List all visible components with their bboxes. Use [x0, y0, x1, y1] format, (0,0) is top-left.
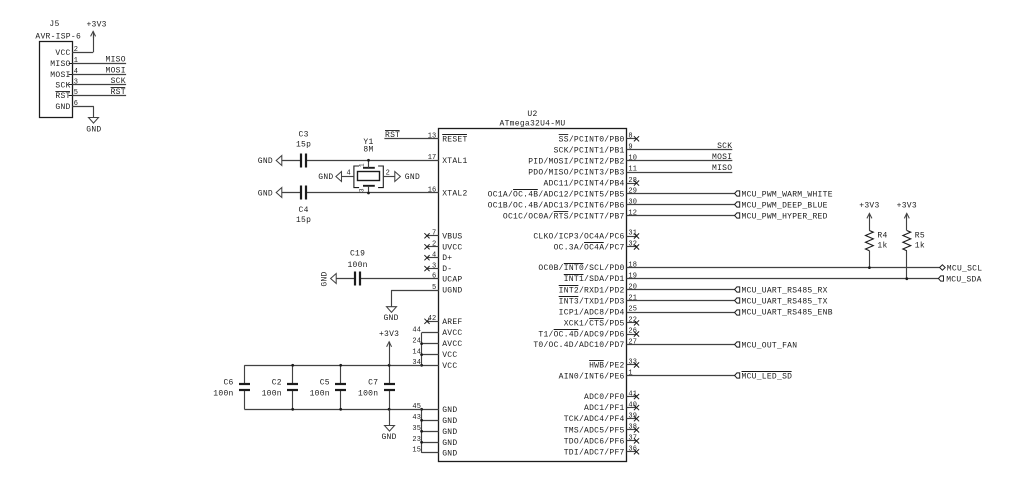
- svg-text:8M: 8M: [363, 146, 373, 155]
- svg-text:INT3/TXD1/PD3: INT3/TXD1/PD3: [559, 297, 625, 306]
- U2 pin number 3: [432, 262, 436, 270]
- J5 pin number 5: [74, 89, 78, 97]
- svg-text:GND: GND: [321, 271, 330, 286]
- svg-text:4: 4: [432, 251, 436, 259]
- svg-text:MCU_UART_RS485_ENB: MCU_UART_RS485_ENB: [742, 309, 833, 318]
- junction C7 bottom: [388, 408, 391, 411]
- U2 pin number 23: [412, 436, 421, 444]
- U2 pin number 36: [628, 446, 637, 454]
- svg-text:D+: D+: [442, 254, 452, 263]
- U2 pin number 41: [628, 390, 637, 398]
- wire J5 MOSI: [72, 74, 126, 76]
- wire MCU_PWM_HYPER_RED: [627, 215, 735, 217]
- no-connect pin 22: [627, 320, 640, 325]
- U2 pin name AVCC (44): [442, 329, 462, 338]
- svg-text:3: 3: [359, 188, 366, 192]
- svg-text:MCU_UART_RS485_RX: MCU_UART_RS485_RX: [742, 287, 828, 296]
- U2 pin name SS/PCINT0/PB0 (8): [559, 135, 625, 145]
- svg-text:MISO: MISO: [712, 164, 732, 173]
- svg-text:TCK/ADC4/PF4: TCK/ADC4/PF4: [564, 415, 625, 424]
- svg-text:XTAL2: XTAL2: [442, 190, 467, 199]
- svg-text:ADC11/PCINT4/PB4: ADC11/PCINT4/PB4: [543, 180, 624, 189]
- J5 pin tick MISO: [69, 63, 73, 65]
- U2 pin number 15: [412, 447, 421, 455]
- U2 pin name INT2/RXD1/PD2 (20): [559, 286, 625, 296]
- svg-text:AVCC: AVCC: [442, 329, 462, 338]
- svg-text:MCU_PWM_HYPER_RED: MCU_PWM_HYPER_RED: [742, 213, 828, 222]
- U2 pin name OC.3A/OC4A/PC7 (32): [554, 243, 625, 253]
- svg-text:30: 30: [628, 199, 637, 207]
- crystal Y1 labels: [363, 138, 373, 155]
- svg-text:MCU_OUT_FAN: MCU_OUT_FAN: [742, 341, 798, 350]
- svg-text:ATmega32U4-MU: ATmega32U4-MU: [500, 120, 566, 129]
- wire MCU_UART_RS485_RX: [627, 289, 735, 291]
- svg-text:AIN0/INT6/PE6: AIN0/INT6/PE6: [559, 372, 625, 381]
- svg-text:C2: C2: [272, 379, 282, 388]
- svg-text:4: 4: [346, 170, 350, 178]
- Y1 pin number 4: [346, 170, 350, 178]
- svg-text:MCU_SCL: MCU_SCL: [947, 264, 983, 273]
- U2 pin name TDO/ADC6/PF6 (37): [564, 437, 625, 446]
- C19 labels: [347, 250, 367, 270]
- U2 pin number 43: [412, 414, 421, 422]
- U2 pin number 30: [628, 199, 637, 207]
- U2 pin number 37: [628, 435, 637, 443]
- junction C7 top: [388, 364, 391, 367]
- svg-text:100n: 100n: [310, 390, 330, 399]
- global label MCU_SCL: [940, 264, 983, 273]
- U2 pin name GND (15): [442, 449, 457, 458]
- svg-text:ICP1/ADC8/PD4: ICP1/ADC8/PD4: [559, 309, 625, 318]
- no-connect pin UVCC: [424, 244, 438, 249]
- global label MCU_UART_RS485_RX: [735, 287, 828, 296]
- crystal Y1 pin 3: [368, 186, 370, 193]
- U2 pin number 39: [628, 412, 637, 420]
- svg-text:OC1B/OC.4B/ADC13/PCINT6/PB6: OC1B/OC.4B/ADC13/PCINT6/PB6: [488, 201, 625, 210]
- svg-text:MCU_PWM_WARM_WHITE: MCU_PWM_WARM_WHITE: [742, 191, 833, 200]
- U2 pin number 22: [628, 317, 637, 325]
- crystal Y1 pin 1: [368, 160, 370, 168]
- svg-text:+3V3: +3V3: [859, 202, 879, 211]
- svg-text:XCK1/CTS/PD5: XCK1/CTS/PD5: [564, 319, 625, 328]
- svg-text:GND: GND: [442, 439, 457, 448]
- power +3V3 (cap bank): [379, 330, 399, 365]
- junction XTAL2/Y1: [367, 192, 370, 195]
- global label MCU_PWM_DEEP_BLUE: [735, 202, 828, 211]
- junction R4: [868, 266, 871, 269]
- svg-text:AVR-ISP-6: AVR-ISP-6: [35, 33, 81, 42]
- Y1 pin numbers 1 and 3: [359, 163, 366, 192]
- svg-text:OC.3A/OC4A/PC7: OC.3A/OC4A/PC7: [554, 244, 625, 253]
- svg-text:C6: C6: [223, 379, 233, 388]
- no-connect pin AREF: [424, 319, 438, 324]
- svg-text:GND: GND: [405, 173, 420, 182]
- wire UGND: [391, 290, 439, 307]
- wire J5 GND: [72, 107, 94, 118]
- svg-text:1k: 1k: [877, 242, 887, 251]
- svg-text:RST: RST: [111, 88, 126, 97]
- svg-text:GND: GND: [442, 428, 457, 437]
- svg-text:+3V3: +3V3: [379, 330, 399, 339]
- net label SCK: [717, 142, 732, 151]
- svg-text:ADC0/PF0: ADC0/PF0: [584, 393, 625, 402]
- U2 pin name T0/OC.4D/ADC10/PD7 (27): [533, 341, 624, 350]
- junction AVCC24: [420, 342, 423, 345]
- svg-text:18: 18: [628, 261, 637, 269]
- net label SCK: [111, 77, 126, 86]
- svg-text:GND: GND: [318, 173, 333, 182]
- svg-text:SCK: SCK: [111, 77, 126, 86]
- svg-text:29: 29: [628, 188, 637, 196]
- wire XTAL2: [282, 192, 439, 194]
- svg-text:44: 44: [412, 326, 421, 334]
- svg-text:16: 16: [428, 187, 437, 195]
- J5 pin tick MOSI: [69, 74, 73, 76]
- no-connect pin 39: [627, 416, 640, 421]
- ground (Y1 pin 4): [318, 172, 341, 182]
- svg-text:MISO: MISO: [106, 56, 126, 65]
- svg-text:PID/MOSI/PCINT2/PB2: PID/MOSI/PCINT2/PB2: [528, 158, 624, 167]
- crystal Y1 body: [358, 168, 380, 186]
- junction GND45: [420, 408, 423, 411]
- no-connect pin 32: [627, 244, 640, 249]
- U2 pin number 27: [628, 338, 637, 346]
- U2 pin name ICP1/ADC8/PD4 (25): [559, 309, 625, 318]
- net label MOSI: [106, 67, 126, 76]
- U2 pin name OC1C/OC0A/RTS/PCINT7/PB7 (12): [503, 212, 625, 222]
- svg-text:C7: C7: [368, 379, 378, 388]
- J5 reference label: [49, 20, 59, 29]
- U2 pin name ADC1/PF1 (40): [584, 404, 625, 413]
- U2 pin name SCK/PCINT1/PB1 (9): [554, 146, 625, 155]
- svg-text:1: 1: [628, 370, 632, 378]
- svg-text:+3V3: +3V3: [86, 21, 106, 30]
- no-connect pin 36: [627, 449, 640, 454]
- U2 pin name TDI/ADC7/PF7 (36): [564, 448, 625, 457]
- U2 pin number 16: [428, 187, 437, 195]
- U2 pin number 34: [412, 359, 421, 367]
- U2 pin number 26: [628, 328, 637, 336]
- U2 pin name VBUS (7): [442, 232, 462, 241]
- power +3V3 (J5): [86, 21, 106, 39]
- C4 labels: [296, 206, 311, 225]
- junction GND35: [420, 430, 423, 433]
- wire MCU_PWM_DEEP_BLUE: [627, 204, 735, 206]
- capacitor C19: [355, 272, 360, 286]
- U2 pin number 14: [412, 348, 421, 356]
- J5 pin tick RST: [69, 95, 73, 97]
- svg-text:MCU_LED_SD: MCU_LED_SD: [742, 373, 793, 382]
- U2 pin number 5: [432, 284, 436, 292]
- ground (C19, rotated): [321, 271, 337, 286]
- svg-text:GND: GND: [258, 190, 273, 199]
- wire J5 RST: [72, 95, 126, 97]
- global label MCU_UART_RS485_TX: [735, 298, 828, 307]
- U2 pin name T1/OC.4D/ADC9/PD6 (26): [538, 330, 624, 340]
- U2 pin name AREF (42): [442, 318, 462, 327]
- svg-text:UVCC: UVCC: [442, 243, 462, 252]
- J5 pin name RST: [55, 92, 70, 102]
- global label MCU_LED_SD: [735, 372, 793, 382]
- C2 labels: [262, 379, 282, 399]
- U2 pin name OC0B/INT0/SCL/PD0 (18): [538, 264, 624, 274]
- svg-text:C3: C3: [299, 130, 309, 139]
- U2 pin number 17: [428, 154, 437, 162]
- wire MCU_SDA: [627, 278, 939, 280]
- wire MCU_PWM_WARM_WHITE: [627, 193, 735, 195]
- svg-text:27: 27: [628, 338, 637, 346]
- power +3V3 (R5): [897, 202, 917, 219]
- net label MISO: [106, 56, 126, 65]
- junction C5 bottom: [339, 408, 342, 411]
- svg-text:TDO/ADC6/PF6: TDO/ADC6/PF6: [564, 437, 625, 446]
- U2 reference label: [527, 110, 537, 119]
- U2 pin name PDO/MISO/PCINT3/PB3 (11): [528, 169, 624, 178]
- svg-text:CLKO/ICP3/OC4A/PC6: CLKO/ICP3/OC4A/PC6: [533, 233, 624, 242]
- svg-text:J5: J5: [49, 20, 59, 29]
- svg-text:MISO: MISO: [50, 60, 70, 69]
- svg-text:15p: 15p: [296, 140, 311, 149]
- svg-text:23: 23: [412, 436, 421, 444]
- U2 pin number 18: [628, 261, 637, 269]
- U2 pin name HWB/PE2 (33): [589, 361, 625, 371]
- U2 pin number 20: [628, 284, 637, 292]
- svg-text:VCC: VCC: [442, 362, 457, 371]
- wire MCU_UART_RS485_TX: [627, 300, 735, 302]
- ground (J5): [86, 118, 101, 135]
- svg-text:TMS/ADC5/PF5: TMS/ADC5/PF5: [564, 426, 625, 435]
- U2 pin number 45: [412, 403, 421, 411]
- U2 pin number 42: [428, 315, 437, 323]
- R5 labels: [915, 232, 925, 251]
- U2 pin number 7: [432, 230, 436, 238]
- wire Y1 pin 4 to GND: [342, 176, 354, 178]
- U2 pin number 44: [412, 326, 421, 334]
- svg-text:1: 1: [359, 163, 366, 167]
- J5 pin name MISO: [50, 60, 70, 69]
- C5 labels: [310, 379, 330, 399]
- U2 pin name ADC0/PF0 (41): [584, 393, 625, 402]
- svg-text:15p: 15p: [296, 216, 311, 225]
- J5 pin number 6: [74, 100, 78, 108]
- svg-text:GND: GND: [383, 314, 398, 323]
- U2 pin number 35: [412, 425, 421, 433]
- wire +3V3 rail: [244, 365, 421, 367]
- J5 pin name MOSI: [50, 71, 70, 80]
- svg-text:GND: GND: [442, 417, 457, 426]
- U2 pin name OC1A/OC.4B/ADC12/PCINT5/PB5 (29): [488, 190, 625, 200]
- U2 pin name UGND (5): [442, 287, 462, 296]
- svg-text:TDI/ADC7/PF7: TDI/ADC7/PF7: [564, 448, 625, 457]
- svg-text:INT1/SDA/PD1: INT1/SDA/PD1: [564, 275, 625, 284]
- U2 pin name ADC11/PCINT4/PB4 (28): [543, 180, 624, 189]
- J5 pin number 2: [74, 46, 78, 54]
- U2 pin name TCK/ADC4/PF4 (39): [564, 415, 625, 424]
- Y1 pin number 2: [386, 170, 390, 178]
- svg-text:OC1C/OC0A/RTS/PCINT7/PB7: OC1C/OC0A/RTS/PCINT7/PB7: [503, 212, 625, 221]
- U2 pin number 40: [628, 401, 637, 409]
- C3 labels: [296, 130, 311, 149]
- J5 pin number 4: [74, 68, 78, 76]
- svg-text:UGND: UGND: [442, 287, 462, 296]
- svg-text:43: 43: [412, 414, 421, 422]
- U2 pin name CLKO/ICP3/OC4A/PC6 (31): [533, 233, 624, 242]
- U2 pin number 28: [628, 177, 637, 185]
- J5 pin name VCC: [55, 49, 70, 58]
- no-connect pin 8: [627, 136, 640, 141]
- U2 pin name XTAL2 (16): [442, 190, 467, 199]
- wire RESET pin 13: [384, 138, 438, 140]
- R4 labels: [877, 232, 887, 251]
- capacitor C5: [335, 365, 346, 409]
- U2 pin name PID/MOSI/PCINT2/PB2 (10): [528, 158, 624, 167]
- capacitor C7: [384, 365, 395, 409]
- svg-text:20: 20: [628, 284, 637, 292]
- svg-text:12: 12: [628, 210, 637, 218]
- resistor R5: [903, 218, 911, 278]
- svg-text:7: 7: [432, 230, 436, 238]
- U2 value ATmega32U4-MU: [500, 120, 566, 129]
- svg-text:D-: D-: [442, 265, 452, 274]
- no-connect pin D+: [424, 255, 438, 260]
- svg-text:6: 6: [432, 273, 436, 281]
- wire GND bus: [422, 409, 439, 453]
- svg-text:RST: RST: [55, 92, 70, 101]
- svg-text:INT2/RXD1/PD2: INT2/RXD1/PD2: [559, 286, 625, 295]
- C6 labels: [213, 379, 233, 399]
- net label RST: [385, 131, 400, 141]
- svg-text:MCU_UART_RS485_TX: MCU_UART_RS485_TX: [742, 298, 828, 307]
- svg-text:21: 21: [628, 295, 637, 303]
- svg-text:+3V3: +3V3: [897, 202, 917, 211]
- U2 pin number 1: [628, 370, 632, 378]
- svg-text:MOSI: MOSI: [712, 153, 732, 162]
- svg-text:3: 3: [432, 262, 436, 270]
- svg-text:100n: 100n: [347, 261, 367, 270]
- svg-text:2: 2: [432, 241, 436, 249]
- svg-text:MCU_PWM_DEEP_BLUE: MCU_PWM_DEEP_BLUE: [742, 202, 828, 211]
- global label MCU_UART_RS485_ENB: [735, 309, 833, 318]
- svg-text:SCK/PCINT1/PB1: SCK/PCINT1/PB1: [554, 146, 625, 155]
- junction R5: [905, 277, 908, 280]
- U2 pin name UVCC (2): [442, 243, 462, 252]
- svg-text:1k: 1k: [915, 242, 925, 251]
- U2 pin number 33: [628, 359, 637, 367]
- resistor R4: [866, 218, 874, 267]
- global label MCU_SDA: [938, 275, 981, 284]
- U2 pin number 4: [432, 251, 436, 259]
- U2 pin number 13: [428, 133, 437, 141]
- wire MCU_SCL: [627, 267, 940, 269]
- svg-text:T1/OC.4D/ADC9/PD6: T1/OC.4D/ADC9/PD6: [538, 331, 624, 340]
- no-connect pin 38: [627, 427, 640, 432]
- svg-text:10: 10: [628, 155, 637, 163]
- svg-text:XTAL1: XTAL1: [442, 157, 467, 166]
- wire XTAL1: [282, 160, 439, 162]
- svg-text:100n: 100n: [213, 390, 233, 399]
- U2 pin name GND (43): [442, 417, 457, 426]
- wire UCAP: [336, 278, 439, 280]
- svg-text:GND: GND: [381, 433, 396, 442]
- U2 pin number 24: [412, 337, 421, 345]
- U2 pin number 9: [628, 144, 632, 152]
- U2 pin number 11: [628, 166, 637, 174]
- capacitor C4: [301, 186, 306, 200]
- svg-text:9: 9: [628, 144, 632, 152]
- U2 pin name INT3/TXD1/PD3 (21): [559, 297, 625, 307]
- no-connect pin 31: [627, 233, 640, 238]
- wire MOSI: [627, 160, 733, 162]
- wire J5 MISO: [72, 63, 126, 65]
- svg-text:24: 24: [412, 337, 421, 345]
- no-connect pin 33: [627, 362, 640, 367]
- svg-text:OC0B/INT0/SCL/PD0: OC0B/INT0/SCL/PD0: [538, 264, 624, 273]
- U2 pin name D+ (4): [442, 254, 452, 263]
- capacitor C6: [239, 365, 250, 409]
- U2 pin name AVCC (24): [442, 340, 462, 349]
- svg-text:100n: 100n: [358, 390, 378, 399]
- U2 pin name GND (23): [442, 439, 457, 448]
- U2 pin number 12: [628, 210, 637, 218]
- svg-text:U2: U2: [527, 110, 537, 119]
- J5 pin tick SCK: [69, 84, 73, 86]
- svg-text:RST: RST: [385, 131, 400, 140]
- J5 pin number 1: [74, 57, 78, 65]
- svg-text:35: 35: [412, 425, 421, 433]
- U2 pin number 6: [432, 273, 436, 281]
- svg-text:MOSI: MOSI: [50, 71, 70, 80]
- wire MCU_OUT_FAN: [627, 344, 735, 346]
- capacitor C3: [301, 154, 306, 168]
- svg-text:MOSI: MOSI: [106, 67, 126, 76]
- U2 pin name VCC (34): [442, 362, 457, 371]
- global label MCU_OUT_FAN: [735, 341, 798, 350]
- ground (C4): [258, 188, 282, 199]
- U2 pin name UCAP (6): [442, 276, 462, 285]
- svg-text:GND: GND: [86, 125, 101, 134]
- J5 value AVR-ISP-6: [35, 33, 81, 42]
- svg-text:SCK: SCK: [55, 82, 70, 91]
- wire MISO: [627, 172, 733, 174]
- svg-text:R4: R4: [877, 232, 887, 241]
- wire MCU_LED_SD: [627, 375, 735, 377]
- no-connect pin VBUS: [424, 233, 438, 238]
- ground (C3): [258, 156, 282, 166]
- power +3V3 (R4): [859, 202, 879, 219]
- U2 pin name TMS/ADC5/PF5 (38): [564, 426, 625, 435]
- junction C5 top: [339, 364, 342, 367]
- svg-text:OC1A/OC.4B/ADC12/PCINT5/PB5: OC1A/OC.4B/ADC12/PCINT5/PB5: [488, 190, 625, 199]
- net label MOSI: [712, 153, 732, 162]
- wire SCK: [627, 149, 733, 151]
- global label MCU_PWM_WARM_WHITE: [735, 191, 833, 200]
- U2 pin name GND (35): [442, 428, 457, 437]
- svg-text:8: 8: [628, 133, 632, 141]
- junction VCC34: [420, 364, 423, 367]
- no-connect pin 37: [627, 438, 640, 443]
- svg-text:SS/PCINT0/PB0: SS/PCINT0/PB0: [559, 135, 625, 144]
- no-connect pin 28: [627, 181, 640, 186]
- svg-text:2: 2: [386, 170, 390, 178]
- svg-text:3: 3: [74, 79, 78, 87]
- svg-text:RESET: RESET: [442, 136, 467, 145]
- U2 pin number 32: [628, 241, 637, 249]
- no-connect pin D-: [424, 266, 438, 271]
- svg-text:AREF: AREF: [442, 318, 462, 327]
- crystal Y1 ground brackets: [354, 166, 383, 188]
- wire J5 SCK: [72, 84, 126, 86]
- wire J5 VCC to +3V3: [72, 34, 93, 53]
